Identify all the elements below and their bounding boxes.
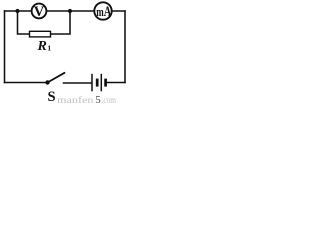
svg-text:S: S: [48, 89, 56, 105]
svg-text:1: 1: [47, 44, 51, 53]
svg-text:5: 5: [95, 94, 101, 106]
svg-text:mA: mA: [96, 4, 111, 20]
svg-text:R: R: [37, 39, 47, 54]
svg-text:.com: .com: [102, 95, 117, 105]
svg-text:manfen: manfen: [57, 95, 94, 105]
svg-text:V: V: [34, 4, 45, 20]
